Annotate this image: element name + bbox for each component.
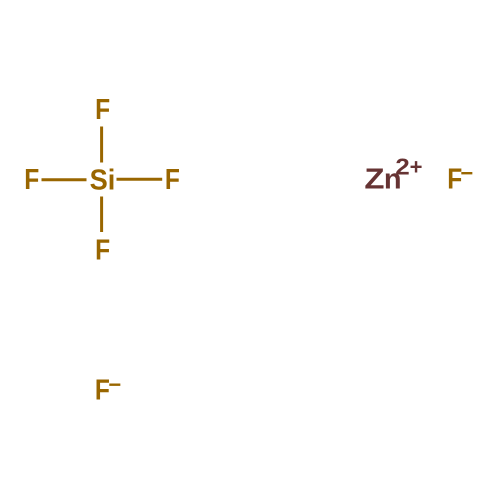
atom F left: [24, 164, 39, 196]
atom F bottom: [95, 235, 110, 267]
charge + of Zn2+: [410, 154, 423, 179]
ion Zn : letter Z: [364, 164, 384, 196]
svg-text:2: 2: [395, 153, 410, 179]
bond Si-F top: [100, 127, 103, 163]
svg-text:F: F: [24, 164, 39, 196]
bond Si-F bottom: [100, 197, 103, 233]
svg-text:F: F: [165, 164, 180, 196]
svg-text:F: F: [95, 94, 110, 126]
atom F top: [95, 94, 110, 126]
bond Si-F left: [42, 178, 87, 181]
ion Zn : letter n: [384, 164, 402, 196]
svg-text:Si: Si: [90, 164, 116, 196]
svg-text:Z: Z: [364, 164, 384, 196]
ion F bottom-left: [95, 375, 110, 407]
charge 2 of Zn2+: [395, 153, 410, 179]
charge minus of F top-right: [460, 161, 473, 186]
svg-text:−: −: [108, 372, 121, 397]
charge minus of F bottom-left: [108, 372, 121, 397]
svg-text:−: −: [460, 161, 473, 186]
atom F right: [165, 164, 180, 196]
svg-text:F: F: [95, 235, 110, 267]
ion F top-right: [447, 164, 462, 196]
svg-text:+: +: [410, 154, 423, 179]
bond Si-F right: [117, 178, 163, 181]
atom Si: [90, 164, 116, 196]
